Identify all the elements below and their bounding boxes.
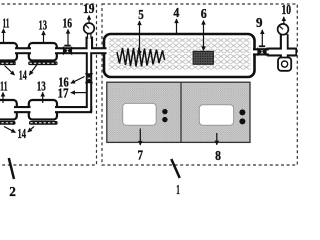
pointer line 1 [171, 159, 179, 178]
svg-text:11: 11 [3, 17, 10, 32]
lead line 13 (row 2) [42, 92, 44, 103]
valve 16 (row 1) [63, 45, 72, 56]
svg-text:11: 11 [0, 80, 7, 95]
lead line 19 [88, 16, 90, 23]
svg-text:13: 13 [39, 19, 48, 34]
lead line 16 (row 1) [67, 30, 69, 46]
window of chamber 8 [199, 105, 233, 125]
pressure gauge 19 [84, 23, 95, 34]
window of chamber 7 [123, 103, 157, 125]
lead line 17 (row 2) [71, 92, 86, 94]
pipe: row2 main line (black layer) [55, 106, 92, 113]
svg-text:14: 14 [18, 127, 27, 142]
svg-text:4: 4 [173, 6, 179, 21]
regulator box 13 (row 2 right box) [29, 100, 57, 120]
sample boat 6 inside furnace [193, 51, 214, 64]
gas bottle 11 (row 2 left box) [0, 100, 17, 120]
svg-text:1: 1 [176, 183, 180, 198]
pipe: row2 connector between boxes (black layer) [14, 106, 31, 113]
lead line 4 [176, 19, 178, 34]
lead line 13 (row 1) [43, 31, 45, 44]
detector chamber 7 [107, 82, 250, 142]
svg-text:6: 6 [201, 7, 207, 22]
valve 9 [257, 45, 266, 56]
svg-text:16: 16 [63, 17, 73, 32]
indicator dots chamber 8 [239, 109, 245, 115]
dashed enclosure 1 (furnace cabinet, right) [102, 4, 297, 165]
heater pad 14 under row-1 right box [28, 61, 57, 65]
gauge 19 pedestal (black layer) [86, 37, 94, 49]
pipe: vertical riser row2 to row1 (black layer) [86, 48, 92, 112]
lead line 8 [216, 133, 218, 145]
heater pad 14 under row-2 right box [29, 121, 58, 125]
tube furnace 4 outer shell [104, 34, 255, 77]
svg-text:17: 17 [58, 87, 69, 102]
furnace insulation hatch [108, 38, 250, 70]
regulator box 13 (row 1 right box) [29, 43, 57, 61]
valve 16 (row 2, on riser) [85, 73, 94, 83]
pipe: row1 main line to furnace (black layer) [55, 47, 107, 54]
pipe: cross fitting vertical (black layer) [280, 34, 289, 59]
heating coil 5 inside furnace [117, 48, 165, 67]
lead line 11 (row 1) [3, 29, 5, 44]
svg-text:9: 9 [256, 16, 263, 31]
pressure gauge 10 [278, 24, 289, 35]
vacuum pump (square with circle) below cross [278, 58, 291, 71]
divider between chamber 7 and 8 [180, 82, 182, 142]
lead line 6 [203, 21, 205, 51]
indicator dots chamber 7 [162, 109, 167, 114]
lead lines 14 (row 2) [4, 127, 16, 133]
lead line 16 (row 2) [71, 77, 85, 84]
svg-text:5: 5 [138, 8, 144, 23]
pipe: furnace outlet line (black layer) [253, 48, 269, 55]
heater pad 14 under row-2 left box [0, 121, 16, 125]
svg-text:10: 10 [281, 3, 291, 18]
dashed enclosure 2 (gas supply cabinet, left) [0, 4, 97, 165]
pipe: row1 connector between boxes (black layer) [15, 47, 31, 54]
svg-text:2: 2 [9, 185, 16, 200]
lead line 5 [139, 21, 141, 55]
gas bottle 11 (row 1 left box) [0, 43, 17, 61]
lead lines 14 (row 1) [5, 66, 15, 76]
heater pad 14 under row-1 left box [0, 61, 16, 65]
svg-text:19: 19 [83, 2, 95, 17]
svg-text:7: 7 [137, 149, 143, 164]
lead line 10 [283, 17, 285, 24]
lead line 11 (row 2) [2, 92, 4, 103]
lead line 9 [261, 30, 263, 46]
pipe white channels [14, 49, 32, 52]
svg-text:8: 8 [215, 149, 221, 164]
lead line 7 [139, 129, 141, 146]
svg-text:13: 13 [37, 80, 46, 95]
pointer line 2 [9, 158, 14, 179]
svg-text:14: 14 [19, 69, 27, 84]
